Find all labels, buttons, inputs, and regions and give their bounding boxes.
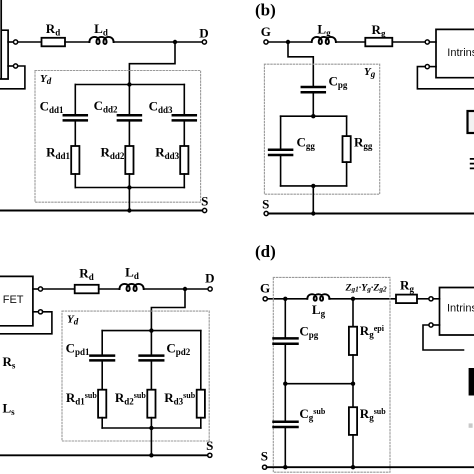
resistor Rdd1 (a)	[71, 146, 79, 174]
wire left branch upper (d)	[284, 299, 286, 339]
wire Rg to intrinsic box (d)	[417, 298, 429, 300]
resistor Rdd2 (a)	[125, 146, 133, 174]
junction node Rgepi branch (d)	[351, 297, 355, 301]
source pin terminal circle (b)	[425, 65, 429, 69]
capacitor Cpd2 (c)	[140, 356, 164, 361]
svg-text:Intrinsic FET: Intrinsic FET	[447, 302, 474, 314]
svg-text:D: D	[199, 26, 208, 41]
wire Rd to Ld (c)	[99, 288, 120, 290]
source line wire (c)	[0, 454, 208, 456]
junction node Cpg branch (d)	[283, 297, 287, 301]
svg-text:Intrinsic FET: Intrinsic FET	[0, 294, 24, 306]
terminal S circle (d)	[263, 465, 267, 469]
drain pin stub wire (a)	[8, 41, 13, 43]
gate pin stub wire (b)	[429, 41, 436, 43]
wire branch2 middle (a)	[128, 120, 130, 146]
wire right branch upper (d)	[352, 299, 354, 327]
terminal G circle (d)	[263, 297, 267, 301]
resistor Rdd3 (a)	[180, 146, 188, 174]
terminal S circle (c)	[208, 453, 212, 457]
junction node source line (c)	[149, 453, 153, 457]
resistor Rd1sub (c)	[98, 390, 106, 418]
junction node source line right (d)	[351, 465, 355, 469]
wire right branch to mid bus (d)	[352, 355, 354, 384]
svg-text:S: S	[261, 449, 268, 464]
junction node source line (b)	[311, 211, 315, 215]
inductor Lg (b)	[312, 37, 336, 44]
source pin stub wire (d)	[433, 324, 439, 326]
terminal S circle (b)	[264, 211, 268, 215]
drain pin stub wire (c)	[33, 288, 38, 290]
source pin stub wire (a)	[8, 65, 13, 67]
capacitor Cgg (b)	[269, 150, 292, 155]
junction node top bus (a)	[127, 82, 131, 86]
inductor Ld (a)	[89, 37, 113, 44]
svg-text:S: S	[201, 194, 208, 209]
junction node bottom bus (a)	[127, 185, 131, 189]
dashed box Yg (b)	[264, 64, 379, 194]
wire branch1 middle (c)	[101, 360, 103, 389]
source pin stub wire (c)	[33, 311, 38, 313]
wire G to Lg (b)	[268, 41, 312, 43]
svg-text:Zg1·Yg·Zg2: Zg1·Yg·Zg2	[345, 283, 387, 294]
svg-text:D: D	[205, 271, 214, 286]
wire branch3 upper (a)	[183, 85, 185, 116]
wire branch1 lower (c)	[101, 418, 103, 428]
junction node on drain line (c)	[183, 287, 187, 291]
wire Lg to Rg (d)	[329, 298, 396, 300]
wire source wrap-around (a)	[0, 66, 25, 89]
wire branch1 upper (c)	[101, 331, 103, 356]
capacitor Cdd2 (a)	[118, 115, 141, 120]
wire Ld to D terminal (a)	[114, 41, 203, 43]
source line wire (d)	[267, 466, 474, 468]
wire Lg to Rg (b)	[336, 41, 365, 43]
wire branch2 upper (a)	[128, 85, 130, 116]
wire branch1 upper (a)	[74, 85, 76, 116]
wire Cgsub to source line (d)	[284, 427, 286, 467]
svg-text:(d): (d)	[255, 242, 276, 261]
wire right branch lower (b)	[346, 162, 348, 186]
drain pin terminal circle (c)	[38, 287, 42, 291]
top bus wire of Yd (a)	[75, 84, 184, 86]
resistor Rd (a)	[42, 38, 66, 47]
resistor Rgg (b)	[343, 136, 351, 162]
loop bottom bus wire (b)	[281, 185, 347, 187]
resistor Rgepi (d)	[349, 327, 357, 355]
mid bus wire (d)	[285, 383, 353, 385]
cropped ground symbol dashes at right edge (b)	[471, 159, 474, 169]
gate pin stub wire (d)	[433, 298, 439, 300]
wire Rgsub to source line (d)	[352, 435, 354, 467]
svg-text:G: G	[261, 24, 271, 39]
wire Ld to D terminal (c)	[144, 288, 208, 290]
wire Rd to Ld (a)	[65, 41, 89, 43]
svg-text:S: S	[262, 197, 269, 212]
junction node on drain line (a)	[173, 40, 177, 44]
terminal D circle (a)	[202, 40, 206, 44]
capacitor Cdd1 (a)	[64, 115, 87, 120]
intrinsic FET box (panel a, cropped)	[0, 0, 8, 79]
resistor Rg (b)	[365, 38, 392, 47]
capacitor Cpd1 (c)	[90, 356, 114, 361]
svg-text:Intrinsic FET: Intrinsic FET	[447, 47, 474, 59]
inductor Lg (d)	[307, 294, 329, 301]
capacitor Cpg (b)	[302, 87, 325, 92]
dashed box Zg1-Yg-Zg2 (d)	[273, 277, 390, 472]
junction node bottom bus (c)	[149, 426, 153, 430]
svg-text:S: S	[206, 438, 213, 453]
wire branch3 lower (a)	[183, 174, 185, 188]
wire Rg to intrinsic box (b)	[392, 41, 425, 43]
junction node loop top (b)	[311, 114, 315, 118]
wire right branch lower upper part (d)	[352, 384, 354, 408]
wire left branch to mid bus (d)	[284, 344, 286, 384]
junction node mid bus left (d)	[283, 382, 287, 386]
gate pin terminal circle (d)	[429, 297, 433, 301]
wire branch3 middle (a)	[183, 120, 185, 146]
source pin terminal circle (d)	[429, 323, 433, 327]
cropped impedance block at right edge (b)	[468, 111, 474, 133]
wire drain to Rd (c)	[43, 288, 75, 290]
capacitor Cpg (d)	[274, 338, 298, 343]
wire left branch lower (d)	[284, 384, 286, 422]
wire Cpg to parallel loop (b)	[312, 92, 314, 116]
cropped gray mark at right edge (d)	[469, 423, 473, 427]
resistor Rd (c)	[75, 285, 99, 294]
wire branch1 middle (a)	[74, 120, 76, 146]
junction node top bus (c)	[149, 328, 153, 332]
junction node source line (a)	[127, 208, 131, 212]
wire branch2 lower (c)	[150, 418, 152, 428]
bottom bus wire of Yd (c)	[102, 427, 201, 429]
wire branch3 lower (c)	[200, 418, 202, 428]
wire left branch lower (b)	[280, 155, 282, 186]
wire step from drain line into Yd network (a)	[129, 42, 175, 85]
wire branch1 lower (a)	[74, 174, 76, 188]
loop top bus wire (b)	[281, 115, 347, 117]
svg-text:G: G	[260, 281, 270, 296]
wire G to Lg (d)	[267, 298, 307, 300]
intrinsic FET box (b, cropped)	[436, 29, 474, 77]
gate pin terminal circle (b)	[425, 40, 429, 44]
wire Yg to source line (b)	[312, 186, 314, 214]
top bus wire of Yd (c)	[102, 330, 201, 332]
junction node source line left (d)	[283, 465, 287, 469]
inductor Ld (c)	[120, 284, 144, 291]
intrinsic FET box (d, cropped)	[440, 288, 474, 336]
terminal G circle (b)	[264, 40, 268, 44]
wire source wrap-around (d)	[423, 325, 464, 350]
resistor Rd2sub (c)	[147, 390, 155, 418]
wire branch2 middle (c)	[150, 360, 152, 389]
wire branch3 upper (c)	[200, 331, 202, 390]
wire branch2 upper (c)	[150, 331, 152, 356]
terminal S circle (a)	[203, 208, 207, 212]
wire drain to Rd (a)	[18, 41, 42, 43]
svg-text:(b): (b)	[255, 1, 276, 20]
wire source wrap-around (c)	[0, 312, 52, 334]
junction node mid bus right (d)	[351, 382, 355, 386]
source pin terminal circle (a)	[14, 64, 18, 68]
drain pin terminal circle (a)	[14, 40, 18, 44]
wire right branch upper (b)	[346, 116, 348, 136]
source pin terminal circle (c)	[38, 310, 42, 314]
source pin stub wire (b)	[429, 66, 436, 68]
capacitor Cdd3 (a)	[173, 115, 196, 120]
source line wire (b)	[268, 213, 474, 215]
bottom bus wire of Yd (a)	[75, 187, 184, 189]
junction node loop bottom (b)	[311, 184, 315, 188]
resistor Rgsub (d)	[349, 407, 357, 435]
wire source wrap-around (b)	[417, 67, 474, 89]
wire Yd to source line (c)	[150, 428, 152, 455]
wire branch2 lower (a)	[128, 174, 130, 188]
cropped black element at right edge (d)	[469, 368, 474, 396]
intrinsic FET box (panel c, cropped)	[0, 276, 33, 325]
junction node on gate line (b)	[286, 40, 290, 44]
terminal D circle (c)	[208, 287, 212, 291]
dashed box Yd (a)	[35, 71, 201, 203]
dashed box Yd (c)	[62, 311, 209, 441]
wire Yd to source line (a)	[128, 188, 130, 211]
wire step from drain line into Yd network (c)	[151, 289, 185, 331]
wire step from gate line into Yg network (b)	[288, 42, 313, 87]
capacitor Cgsub (d)	[274, 422, 298, 427]
resistor Rd3sub (c)	[197, 390, 205, 418]
wire left branch upper (b)	[280, 116, 282, 150]
source line wire (a)	[0, 210, 202, 212]
resistor Rg (d)	[396, 295, 417, 304]
